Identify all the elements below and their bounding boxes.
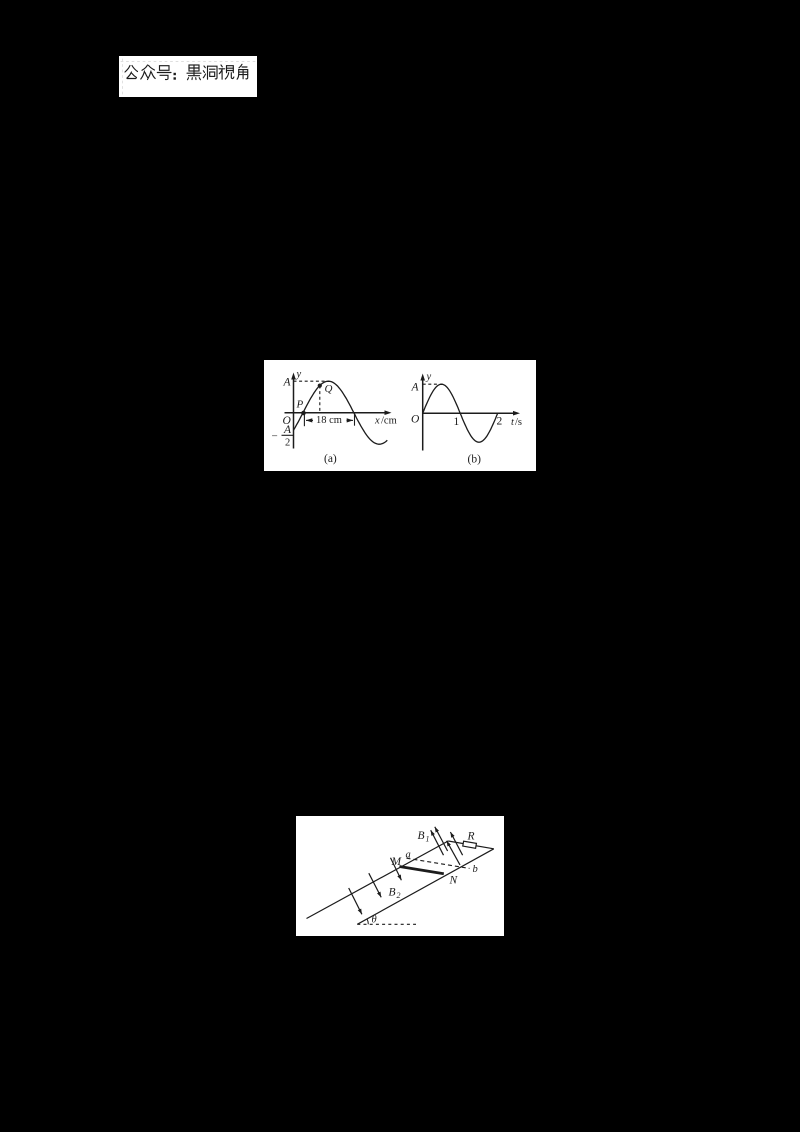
inclined plane figure panel [296,816,504,936]
svg-text:P: P [296,399,304,411]
(b) x-axis [423,412,515,414]
(b) y-axis [422,379,424,451]
angle theta arc [367,919,368,924]
svg-text:N: N [449,875,459,887]
upper rail [307,841,449,919]
svg-text:2: 2 [397,891,401,900]
(a) dashed level A [294,380,328,382]
svg-text:y: y [426,372,432,383]
svg-text:B: B [389,887,396,899]
svg-text:Q: Q [325,383,333,395]
glyph 洞 [203,66,217,79]
(a) dashed drop from Q [319,386,321,413]
svg-text:(b): (b) [468,454,482,466]
labels (b) [411,372,523,466]
B1 field arrow 2 [435,827,448,851]
(a) tick right [354,413,356,426]
dashed rod position a-b [407,858,470,868]
svg-text:A: A [283,424,292,436]
watermark label box 公众号：黑洞视角 [119,56,257,97]
glyph 角 [237,64,248,79]
glyph ： [174,73,176,80]
(a) wave curve [294,381,388,444]
svg-text:M: M [391,856,403,868]
svg-text:b: b [473,864,478,875]
svg-text:A: A [411,382,420,394]
(a) x-axis [285,412,387,414]
(a) tick left [303,415,305,426]
svg-text:1: 1 [426,835,430,844]
resistor R [463,841,477,848]
B1 field arrow 4 [450,832,462,855]
(a) arrow left of 18cm [306,419,313,421]
B1 field arrow 3 [447,841,460,865]
B2 field arrow 1 [349,888,362,914]
glyph 黑 [187,65,201,80]
svg-text:18 cm: 18 cm [316,415,342,426]
svg-text:1: 1 [454,416,460,428]
B2 field arrow 3 [391,858,402,881]
svg-text:−: − [272,431,278,443]
svg-text:(a): (a) [324,453,337,465]
svg-text:B: B [418,830,425,842]
glyph 众 [141,65,155,80]
rod MN [399,867,443,874]
lower rail [357,849,494,925]
svg-text:2: 2 [497,416,503,428]
svg-text:R: R [467,831,475,843]
dashed horizontal base [357,923,416,925]
fraction bar [282,434,294,436]
labels (a) [272,369,397,465]
svg-text:y: y [296,369,302,380]
(a) arrow right of 18cm [347,419,354,421]
(b) dashed level A [423,383,439,385]
wire to resistor R [448,841,494,849]
(a) y-axis [293,378,295,449]
(a) point P [301,411,306,416]
labels [372,830,478,926]
svg-text:/s: /s [515,417,522,428]
glyph 号 [157,66,171,80]
faint dashed frame [121,59,255,95]
svg-text:a: a [406,850,411,861]
B2 field arrow 2 [369,873,381,897]
wave figure panel (a)+(b) [264,360,536,471]
svg-text:A: A [283,377,292,389]
(b) wave curve [423,384,498,442]
svg-text:θ: θ [372,915,377,926]
B1 field arrow 1 [431,830,444,855]
glyph 视 [219,65,234,79]
(a) point Q [318,384,322,388]
svg-text:2: 2 [285,438,290,449]
svg-text:O: O [411,414,420,426]
svg-text:x: x [374,416,380,427]
svg-text:/cm: /cm [381,416,397,427]
glyph 公 [125,66,138,79]
